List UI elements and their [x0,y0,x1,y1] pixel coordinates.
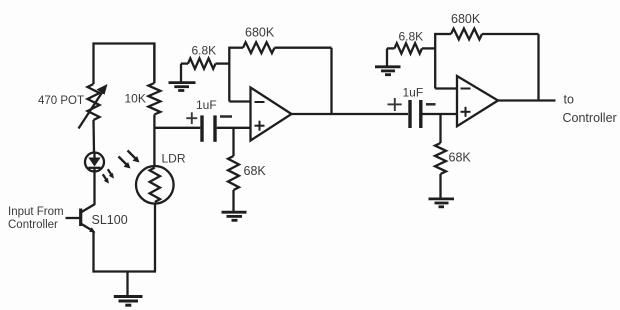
svg-text:6.8K: 6.8K [192,44,217,58]
ground under 68K second stage [429,199,455,207]
svg-text:6.8K: 6.8K [399,30,424,44]
minus mark C1 [220,115,232,118]
svg-text:LDR: LDR [162,152,186,166]
wire node to capacitor C1 [154,127,200,129]
svg-text:680K: 680K [245,26,275,40]
LDR [136,166,174,204]
resistor 6.8K second stage [387,43,435,53]
ground under 6.8K first stage [169,64,196,91]
label LDR [162,152,186,166]
resistor 68K second stage [435,143,446,198]
resistor 10K [148,44,160,167]
label 68K first stage [244,164,267,178]
svg-text:Controller: Controller [8,219,58,231]
LED D1 [85,153,104,172]
op-amp U2 [457,76,498,126]
label 68K second stage [449,151,472,165]
ground bottom [114,272,143,306]
wire LED to transistor collector [93,172,95,205]
resistor 68K first stage [228,156,239,212]
wire top rail [94,44,155,85]
resistor 680K first stage [229,42,331,53]
svg-text:to: to [564,93,574,107]
wire node vertical second stage [434,33,436,89]
label 10K [125,92,146,106]
ground under 6.8K second stage [375,48,401,74]
svg-text:1uF: 1uF [403,86,424,100]
LED light arrows [103,169,114,183]
label 6.8K first stage [192,44,217,58]
capacitor C1 1uF [202,115,215,141]
label 6.8K second stage [399,30,424,44]
minus mark C2 [426,103,436,106]
svg-text:470 POT: 470 POT [38,95,84,107]
label to Controller [563,93,617,126]
capacitor C2 1uF [410,100,421,128]
wire feedback vertical second stage [537,34,539,101]
svg-text:680K: 680K [451,12,481,26]
wire C1 to op-amp U1 plus input [217,127,251,129]
resistor 680K second stage [435,29,538,40]
svg-text:Input From: Input From [8,206,64,218]
transistor SL100 [66,204,96,233]
resistor 470 POT [79,84,108,129]
label Input From Controller [8,206,64,231]
wire junction to 68K second stage [439,114,441,143]
label 1uF C1 [196,98,217,112]
wire C2 to op-amp U2 plus input [423,113,458,115]
wire U2 output [498,99,556,101]
label 680K second stage [451,12,481,26]
wire U1 output to C2 [292,113,409,115]
label 470 POT [38,95,84,107]
svg-text:68K: 68K [449,151,472,165]
label SL100 [92,213,128,227]
svg-text:10K: 10K [125,92,146,106]
svg-text:68K: 68K [244,164,267,178]
wire emitter to bottom rail [94,232,157,272]
plus mark C2 [388,98,402,111]
svg-text:Controller: Controller [563,111,617,125]
label 1uF C2 [403,86,424,100]
wire LDR to bottom rail [154,204,156,272]
wire to U1 minus input [229,100,250,102]
wire to U2 minus input [435,87,457,89]
resistor 6.8K first stage [181,58,229,68]
ground under 68K first stage [222,212,247,220]
plus mark C1 [186,112,197,124]
op-amp U1 [251,88,292,141]
svg-text:SL100: SL100 [92,213,128,227]
wire junction to 68K-1 [232,128,234,156]
label 680K first stage [245,26,275,40]
wire POT to LED [92,120,95,152]
wire node vertical first stage [228,47,230,102]
svg-text:1uF: 1uF [196,98,217,112]
LDR light arrows [119,151,140,169]
wire feedback vertical first stage [330,48,332,114]
